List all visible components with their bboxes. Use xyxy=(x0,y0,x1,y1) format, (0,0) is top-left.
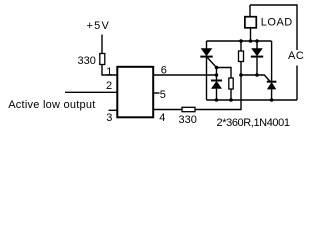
svg-text:6: 6 xyxy=(161,65,167,77)
svg-text:5: 5 xyxy=(160,89,166,101)
svg-text:2: 2 xyxy=(106,80,112,92)
svg-text:3: 3 xyxy=(106,112,112,124)
svg-text:4: 4 xyxy=(159,112,165,124)
svg-text:+5V: +5V xyxy=(87,20,110,32)
svg-text:AC: AC xyxy=(288,50,304,62)
svg-text:330: 330 xyxy=(78,55,96,67)
svg-text:Active low output: Active low output xyxy=(8,99,95,111)
svg-text:2*360R,1N4001: 2*360R,1N4001 xyxy=(217,117,290,129)
svg-text:1: 1 xyxy=(106,66,112,78)
svg-text:LOAD: LOAD xyxy=(261,17,293,29)
svg-text:330: 330 xyxy=(179,114,197,126)
